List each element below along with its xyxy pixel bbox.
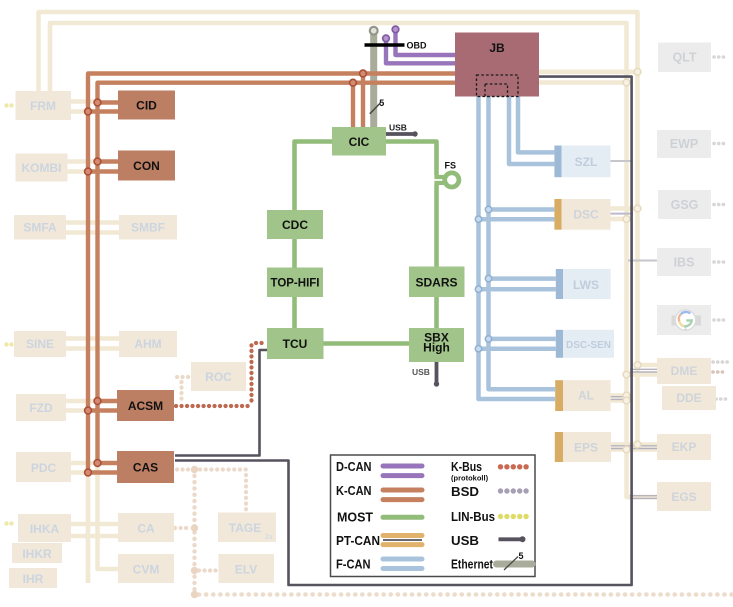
- block CAS: [117, 451, 174, 483]
- node K-CAN junction CON upper: [94, 158, 101, 165]
- node F-CAN junctions line1: [475, 216, 481, 352]
- wire D-CAN outer (OBD to JB): [396, 32, 456, 55]
- block QLT: [658, 43, 711, 73]
- node K-CAN junction CID upper: [94, 99, 101, 106]
- wire K-CAN left vertical and upper horizontal: [88, 74, 455, 473]
- wire MOST CIC right to FS and SDARS: [386, 142, 447, 267]
- wire faded K-CAN vertical left below CAS: [86, 474, 91, 583]
- svg-text:QLT: QLT: [672, 51, 696, 65]
- node junction DSC PT-CAN upper: [634, 205, 641, 212]
- legend PT-CAN: [336, 534, 422, 548]
- svg-text:CON: CON: [133, 159, 160, 173]
- connector JB dashed inner: [485, 84, 508, 97]
- wire KOMBI stubs (faded K-CAN): [67, 162, 95, 172]
- wire MOST CDC to TOP-HIFI: [292, 239, 297, 268]
- node K-CAN junction CAS lower: [85, 469, 92, 476]
- wire FRM stubs (faded K-CAN): [71, 102, 95, 112]
- wire DSC to PT-CAN lower (faded): [611, 217, 627, 222]
- block CON: [118, 151, 175, 181]
- svg-text:FRM: FRM: [30, 99, 56, 113]
- svg-text:DSC: DSC: [573, 208, 599, 222]
- node junction JB PT-CAN upper: [634, 68, 641, 75]
- wire PT-CAN outer frame (faded): [39, 12, 638, 447]
- block SINE: [14, 331, 66, 357]
- wire F-CAN line1 (JB to AL): [479, 96, 556, 399]
- block CDC: [267, 210, 323, 239]
- node junction DSC PT-CAN lower: [623, 216, 630, 223]
- svg-text:CAS: CAS: [133, 461, 158, 475]
- block IHR: [9, 568, 57, 588]
- block KOMBI: [16, 154, 68, 182]
- wire K-CAN CAS stubs: [88, 463, 117, 473]
- block FRM: [16, 91, 72, 120]
- node K-Bus faded junctions: [191, 466, 198, 598]
- wire K-Bus faded vertical (dotted): [192, 470, 196, 595]
- block generator G: [657, 305, 711, 335]
- block FZD: [16, 394, 66, 421]
- svg-text:SINE: SINE: [26, 337, 54, 351]
- wire K-Bus faded CAS row (dotted): [177, 467, 195, 471]
- block DDE: [662, 386, 716, 410]
- wire DME stubs (faded PT-CAN with BSD): [627, 365, 658, 375]
- node K-CAN junction CAS upper: [94, 460, 101, 467]
- node junction DME PT-CAN upper: [634, 362, 641, 369]
- wire EPS-EKP row (faded PT-CAN with BSD): [611, 445, 657, 450]
- wire FZD stubs (faded K-CAN): [66, 401, 95, 411]
- wire K-CAN CON stubs: [88, 162, 118, 172]
- node junction DME PT-CAN lower: [623, 371, 630, 378]
- svg-text:5: 5: [519, 551, 524, 561]
- block LWS: [556, 269, 611, 299]
- wire IBS link (gray): [628, 260, 657, 262]
- block SBX High: [409, 328, 464, 362]
- wire K-CAN right vertical and lower horizontal: [98, 83, 456, 463]
- block DSC: [554, 199, 610, 230]
- block GSG: [658, 190, 711, 219]
- svg-text:F-CAN: F-CAN: [336, 558, 371, 572]
- wire F-CAN LWS stubs: [479, 279, 556, 290]
- wire F-CAN line2 (JB to AL): [489, 96, 556, 389]
- block TAGE: [218, 513, 276, 543]
- connector OBD bar: [365, 41, 428, 51]
- svg-text:CIC: CIC: [349, 135, 370, 149]
- block AHM: [119, 331, 177, 357]
- wire K-Bus ACSM to TCU (dotted): [176, 343, 266, 406]
- wire K-Bus faded to TAGE (dotted): [200, 470, 246, 512]
- legend K-Bus: [451, 460, 529, 483]
- wire K-Bus faded to CA (dotted): [175, 526, 191, 530]
- block DSC-SEN: [556, 330, 614, 358]
- wire F-CAN line4 (JB to SZL upper): [518, 96, 554, 152]
- svg-text:High: High: [423, 341, 450, 355]
- svg-text:FS: FS: [445, 161, 457, 171]
- wire F-CAN line3 (JB to SZL lower): [509, 96, 554, 164]
- wire IHKA-CA row (faded K-CAN): [71, 524, 118, 536]
- legend box: [331, 455, 536, 577]
- component FS fiber loop: [445, 161, 459, 187]
- node K-CAN junction ACSM upper: [94, 398, 101, 405]
- legend Ethernet: [451, 551, 532, 572]
- wire F-CAN DSC-SEN stubs: [479, 339, 556, 349]
- node junction JB PT-CAN lower: [623, 79, 630, 86]
- wire MOST SDARS to SBX: [434, 297, 439, 328]
- wire MOST CIC left loop to CDC: [295, 142, 333, 211]
- block CVM: [118, 554, 174, 583]
- node F-CAN junctions line2: [485, 206, 491, 342]
- block CIC: [332, 127, 386, 156]
- svg-text:DSC-SEN: DSC-SEN: [566, 340, 611, 351]
- svg-text:TOP-HIFI: TOP-HIFI: [271, 276, 320, 290]
- block IBS: [657, 248, 711, 276]
- wire K-CAN CIC branch right: [361, 74, 365, 128]
- block EPS: [555, 432, 611, 462]
- legend USB: [451, 534, 526, 548]
- wire K-CAN ACSM stubs: [88, 401, 117, 411]
- node junction EKP PT-CAN: [623, 441, 641, 453]
- svg-text:IBS: IBS: [674, 256, 695, 270]
- svg-text:D-CAN: D-CAN: [336, 460, 372, 474]
- node Ethernet OBD terminal: [370, 27, 378, 35]
- svg-text:AHM: AHM: [134, 337, 161, 351]
- svg-text:FZD: FZD: [29, 401, 53, 415]
- svg-text:USB: USB: [412, 367, 430, 377]
- block JB: [455, 33, 539, 97]
- legend D-CAN: [336, 460, 422, 476]
- block CA: [118, 513, 174, 542]
- legend F-CAN: [336, 558, 422, 572]
- svg-text:2x: 2x: [265, 534, 273, 541]
- node K-CAN junction CID lower: [85, 108, 92, 115]
- block SZL: [554, 146, 610, 178]
- block SMFA: [14, 215, 66, 240]
- wire K-Bus faded bottom row (dotted): [199, 592, 732, 597]
- svg-text:IHKR: IHKR: [22, 547, 52, 561]
- svg-text:(protokoll): (protokoll): [451, 474, 489, 483]
- svg-text:TAGE: TAGE: [229, 521, 261, 535]
- block SMBF: [119, 215, 177, 240]
- svg-text:PT-CAN: PT-CAN: [336, 534, 380, 548]
- svg-text:TCU: TCU: [283, 337, 308, 351]
- wire DSC to PT-CAN upper (faded): [611, 206, 638, 211]
- wire SINE-AHM row (faded K-CAN): [66, 339, 119, 349]
- svg-text:K-Bus: K-Bus: [451, 460, 482, 474]
- svg-text:SMBF: SMBF: [131, 221, 165, 235]
- wire K-CAN CIC branch left: [351, 83, 355, 127]
- node D-CAN terminal inner: [383, 35, 390, 42]
- wire K-CAN CID stubs: [88, 103, 118, 112]
- svg-text:ROC: ROC: [205, 370, 232, 384]
- svg-text:BSD: BSD: [451, 485, 479, 499]
- block ROC: [191, 362, 246, 391]
- wire LIN-Bus faded dots left column: [4, 103, 13, 525]
- svg-text:GSG: GSG: [671, 198, 699, 212]
- svg-text:SZL: SZL: [575, 155, 598, 169]
- svg-text:USB: USB: [451, 534, 479, 548]
- block TCU: [267, 328, 324, 359]
- wire K-Bus faded ROC branch (dotted): [177, 377, 191, 402]
- svg-text:SMFA: SMFA: [23, 221, 57, 235]
- wire PDC stubs (faded K-CAN): [71, 463, 95, 473]
- block EKP: [657, 434, 711, 460]
- wire JB to PT-CAN upper (faded): [539, 70, 638, 75]
- svg-text:ELV: ELV: [235, 563, 257, 577]
- wire USB from SBX High: [412, 362, 439, 387]
- svg-text:KOMBI: KOMBI: [22, 161, 62, 175]
- block ACSM: [117, 390, 174, 421]
- wire USB from CIC: [386, 123, 418, 137]
- block EGS: [657, 482, 711, 511]
- wire K-Bus faded to ELV (dotted): [199, 568, 218, 572]
- block TOP-HIFI: [267, 268, 323, 298]
- block AL: [555, 380, 610, 411]
- svg-text:CID: CID: [136, 99, 157, 113]
- svg-text:ACSM: ACSM: [128, 399, 163, 413]
- wire PT-CAN inner frame (faded): [50, 23, 657, 497]
- svg-text:JB: JB: [489, 41, 505, 55]
- legend BSD: [451, 485, 529, 499]
- svg-text:OBD: OBD: [407, 41, 428, 51]
- node D-CAN terminal outer: [392, 26, 399, 33]
- label Ethernet 5 wires: [370, 98, 385, 114]
- svg-text:K-CAN: K-CAN: [336, 484, 372, 498]
- svg-text:PDC: PDC: [31, 461, 57, 475]
- legend LIN-Bus: [451, 510, 529, 524]
- node K-CAN junction ACSM lower: [85, 407, 92, 414]
- svg-text:EGS: EGS: [671, 490, 696, 504]
- block PDC: [16, 452, 71, 482]
- svg-text:LIN-Bus: LIN-Bus: [451, 510, 495, 524]
- wire SZL-EWP link (gray): [611, 160, 633, 162]
- legend K-CAN: [336, 484, 422, 500]
- svg-text:CA: CA: [137, 522, 155, 536]
- node K-CAN junction CIC lower: [350, 79, 357, 86]
- connector JB dashed outer: [477, 75, 519, 97]
- wire D-CAN inner (OBD to JB): [386, 41, 455, 63]
- svg-text:DDE: DDE: [676, 391, 701, 405]
- wire SMFA-SMBF row (faded K-CAN): [66, 223, 119, 233]
- svg-text:EPS: EPS: [574, 441, 598, 455]
- svg-text:CDC: CDC: [282, 218, 308, 232]
- svg-text:≈: ≈: [684, 327, 687, 333]
- node K-CAN junction CON lower: [85, 168, 92, 175]
- svg-text:EKP: EKP: [672, 440, 697, 454]
- wire dark link TCU to CAS: [175, 350, 267, 456]
- block ELV: [219, 554, 275, 583]
- block IHKA: [18, 514, 71, 542]
- svg-text:SDARS: SDARS: [415, 276, 457, 290]
- svg-text:5: 5: [379, 98, 384, 108]
- wire F-CAN DSC stubs: [479, 210, 555, 220]
- svg-text:LWS: LWS: [573, 278, 599, 292]
- block EWP: [657, 130, 711, 158]
- svg-text:AL: AL: [578, 389, 594, 403]
- wire MOST TCU to SBX: [324, 341, 410, 346]
- wire faded K-CAN vertical right below CAS to CVM: [98, 465, 119, 569]
- svg-text:DME: DME: [671, 364, 698, 378]
- wire MOST TOP-HIFI to TCU: [292, 297, 297, 328]
- svg-text:USB: USB: [389, 123, 407, 133]
- wire dark link CAS to JB (around bottom right): [175, 77, 632, 585]
- svg-text:EWP: EWP: [670, 137, 698, 151]
- svg-text:IHR: IHR: [23, 572, 44, 586]
- wire JB to PT-CAN lower (faded): [539, 80, 627, 85]
- block CID: [118, 91, 175, 120]
- wire EGS stub (faded PT-CAN with BSD): [627, 496, 658, 499]
- wire AL right stub (faded PT-CAN): [611, 396, 632, 401]
- block IHKR: [12, 543, 62, 563]
- svg-text:MOST: MOST: [337, 511, 373, 525]
- block DME: [657, 358, 711, 384]
- block SDARS: [409, 267, 465, 298]
- svg-text:IHKA: IHKA: [30, 522, 60, 536]
- node junction AL PT-CAN: [623, 392, 630, 404]
- wire DSC BSD link (gray): [611, 213, 634, 215]
- svg-text:CVM: CVM: [133, 563, 160, 577]
- wire BSD faded dots right edge: [713, 57, 730, 399]
- node K-CAN junction CIC upper: [360, 70, 367, 77]
- wire Ethernet CIC-OBD: [370, 33, 377, 127]
- legend MOST: [337, 511, 422, 525]
- svg-text:Ethernet: Ethernet: [451, 558, 494, 572]
